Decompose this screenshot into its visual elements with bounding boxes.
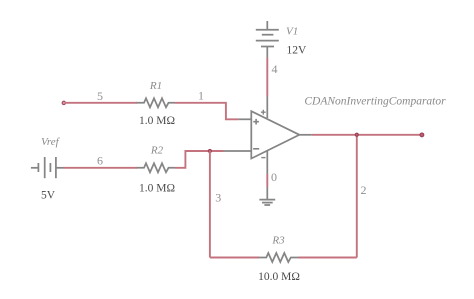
op-amp + input pin: [238, 118, 251, 120]
svg-text:Vref: Vref: [41, 136, 61, 148]
wire Vref to R2 (node 6): [64, 167, 138, 169]
wire op-amp V- to ground: [266, 174, 268, 187]
output terminal dot: [420, 133, 424, 137]
op-amp V- power pin: [266, 151, 268, 174]
resistor R1: [137, 98, 176, 107]
wire R1 to op-amp + input (node 1): [175, 103, 238, 120]
svg-text:R2: R2: [150, 145, 164, 157]
ground: [259, 187, 275, 205]
svg-text:1: 1: [198, 89, 204, 103]
resistor R3: [259, 253, 299, 262]
svg-text:1.0 MΩ: 1.0 MΩ: [139, 115, 175, 127]
junction node 3 dot: [208, 149, 211, 152]
svg-text:0: 0: [271, 170, 277, 184]
wire R2 to junction and op-amp - input: [175, 151, 224, 168]
svg-text:V1: V1: [286, 26, 298, 38]
svg-text:5: 5: [97, 89, 103, 103]
svg-text:R1: R1: [149, 80, 162, 92]
battery Vref: [31, 157, 64, 178]
junction node 2 dot: [355, 133, 358, 136]
wire to R3 left: [210, 257, 259, 259]
op-amp output pin: [299, 134, 311, 136]
wire V1 to op-amp power (node 4): [266, 58, 268, 97]
wire junction down to R3 (node 3): [209, 151, 211, 258]
node 5 (input terminal dot): [62, 101, 65, 104]
svg-text:5V: 5V: [41, 190, 56, 202]
svg-text:3: 3: [215, 191, 221, 205]
svg-text:R3: R3: [271, 235, 285, 247]
svg-text:10.0 MΩ: 10.0 MΩ: [258, 271, 300, 283]
svg-text:12V: 12V: [287, 45, 308, 57]
svg-text:1.0 MΩ: 1.0 MΩ: [139, 183, 175, 195]
wire output to terminal (node 2): [312, 134, 422, 136]
resistor R2: [137, 163, 176, 172]
wire R3 right to output node: [299, 257, 357, 259]
svg-text:6: 6: [97, 154, 103, 168]
svg-text:4: 4: [272, 62, 278, 76]
op-amp U1 body: [251, 110, 299, 159]
op-amp - input pin: [224, 150, 252, 152]
battery V1: [256, 21, 279, 58]
svg-text:2: 2: [361, 183, 367, 197]
svg-text:CDANonInvertingComparator: CDANonInvertingComparator: [304, 95, 446, 107]
wire up to output junction (node 2): [356, 135, 358, 258]
wire node5 to R1: [65, 102, 137, 104]
op-amp V+ power pin: [266, 97, 268, 119]
